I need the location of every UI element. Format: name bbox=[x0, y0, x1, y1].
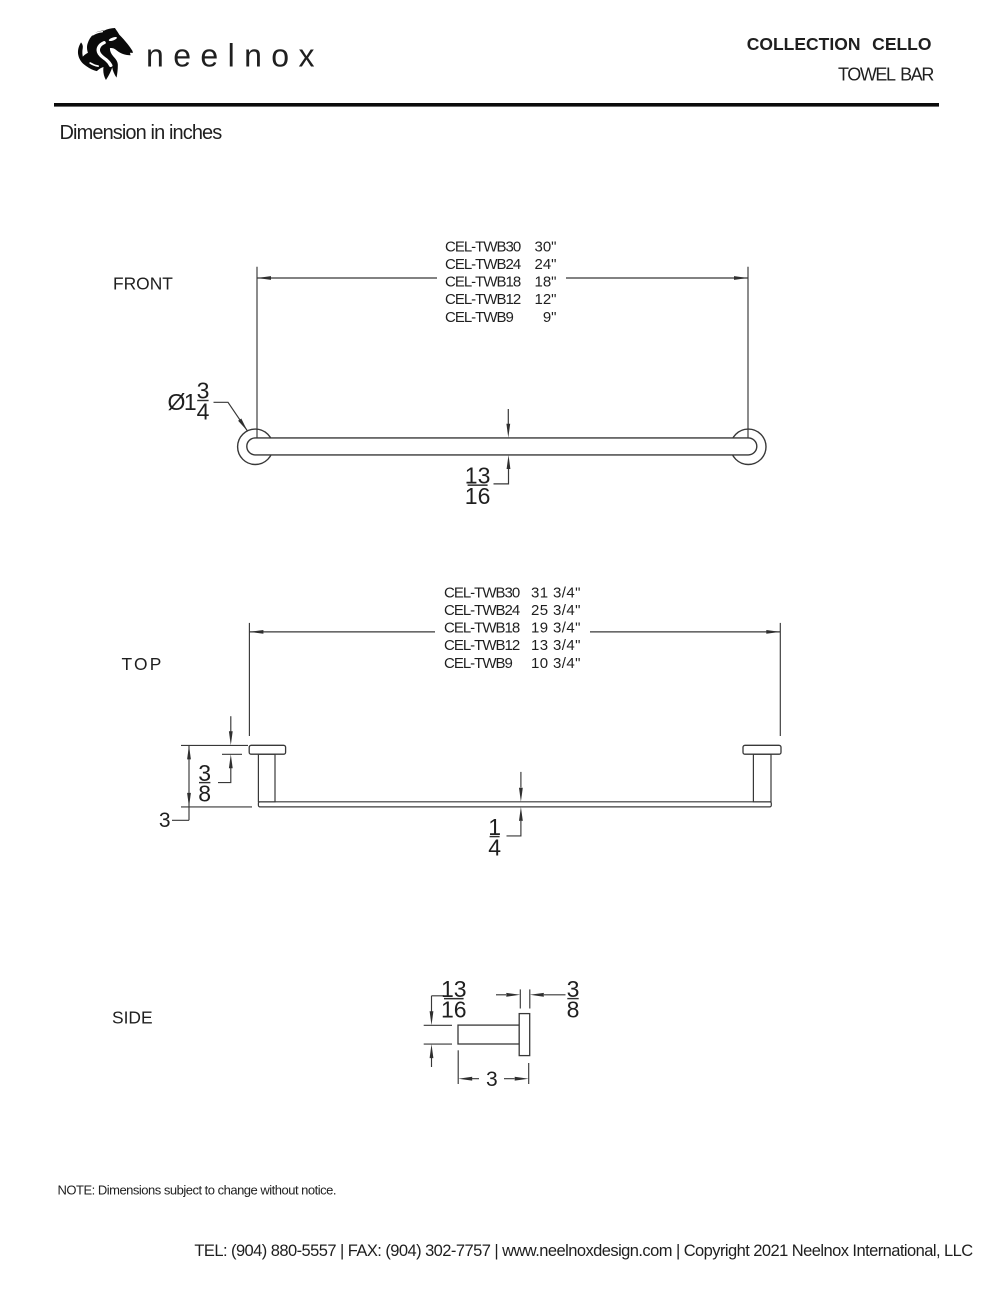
side bar lower arrow line bbox=[431, 1058, 433, 1067]
bar depth lower arrow line bbox=[507, 821, 521, 836]
svg-text:4: 4 bbox=[197, 399, 210, 425]
svg-text:CEL-TWB24: CEL-TWB24 bbox=[444, 602, 520, 619]
top left wall cap bbox=[249, 745, 285, 754]
side plate left arrow line bbox=[496, 994, 506, 996]
depth dim vertical bbox=[172, 745, 189, 820]
side length ext right bbox=[528, 1063, 530, 1084]
depth arrow down bbox=[187, 793, 191, 807]
bar depth fraction 1/4 bbox=[488, 814, 501, 861]
diameter label leader bbox=[214, 402, 248, 431]
svg-text:3: 3 bbox=[486, 1068, 498, 1091]
svg-text:FRONT: FRONT bbox=[113, 273, 173, 293]
diameter fraction 3/4 bbox=[197, 378, 210, 425]
side bar arrow up bbox=[430, 1044, 434, 1058]
side plate arrow right bbox=[506, 993, 520, 997]
side bar fraction 13/16 bbox=[441, 976, 467, 1023]
top right wall cap bbox=[743, 745, 781, 754]
cap thickness lower arrow line bbox=[218, 768, 231, 783]
svg-text:SIDE: SIDE bbox=[112, 1008, 153, 1028]
cap thickness arrow up bbox=[229, 754, 233, 768]
front left post circle bbox=[238, 429, 273, 464]
side bar upper arrow line bbox=[432, 996, 445, 1012]
side plate arrow left bbox=[530, 993, 544, 997]
svg-text:COLLECTION CELLO: COLLECTION CELLO bbox=[747, 34, 932, 54]
svg-text:CEL-TWB30: CEL-TWB30 bbox=[445, 238, 521, 255]
svg-text:10 3/4": 10 3/4" bbox=[531, 655, 581, 672]
side wall plate bbox=[519, 1014, 530, 1056]
front left extension line bbox=[256, 267, 258, 438]
bar thickness upper arrow bbox=[507, 409, 509, 425]
svg-text:CEL-TWB9: CEL-TWB9 bbox=[444, 655, 513, 672]
side bar ext top bbox=[424, 1024, 452, 1026]
bar thickness fraction 13/16 bbox=[465, 462, 491, 509]
top left extension line bbox=[248, 623, 250, 736]
side length ext left bbox=[457, 1050, 459, 1084]
front part table bbox=[445, 238, 521, 325]
svg-text:16: 16 bbox=[441, 996, 467, 1022]
svg-text:Dimension in inches: Dimension in inches bbox=[60, 122, 223, 144]
depth arrow up bbox=[187, 745, 191, 759]
front dim arrow left bbox=[257, 276, 271, 280]
depth ext top bbox=[181, 744, 248, 746]
svg-text:CEL-TWB24: CEL-TWB24 bbox=[445, 256, 521, 273]
svg-text:CEL-TWB18: CEL-TWB18 bbox=[445, 274, 521, 291]
depth ext bottom bbox=[181, 806, 252, 808]
svg-text:TOWEL BAR: TOWEL BAR bbox=[838, 65, 934, 85]
svg-text:25 3/4": 25 3/4" bbox=[531, 602, 581, 619]
logo horse head bbox=[78, 28, 133, 80]
cap bottom extension bbox=[222, 753, 242, 755]
svg-text:8: 8 bbox=[567, 996, 580, 1022]
top right post bbox=[753, 754, 771, 802]
side plate right arrow line bbox=[544, 994, 566, 996]
side bar body bbox=[458, 1025, 519, 1044]
svg-text:neelnox: neelnox bbox=[146, 38, 324, 74]
header rule bbox=[54, 103, 939, 107]
svg-text:CEL-TWB18: CEL-TWB18 bbox=[444, 620, 520, 637]
front right post circle bbox=[731, 429, 766, 464]
top dim arrow right bbox=[766, 630, 780, 634]
svg-text:4: 4 bbox=[488, 834, 501, 860]
svg-text:TOP: TOP bbox=[122, 654, 164, 674]
svg-text:30": 30" bbox=[534, 238, 556, 255]
svg-text:Ø1: Ø1 bbox=[168, 389, 196, 415]
side plate ext left bbox=[519, 989, 521, 1008]
top right extension line bbox=[779, 623, 781, 736]
svg-text:19 3/4": 19 3/4" bbox=[531, 620, 581, 637]
diameter leader arrowhead bbox=[238, 419, 248, 432]
svg-text:24": 24" bbox=[534, 256, 556, 273]
svg-text:16: 16 bbox=[465, 483, 491, 509]
svg-text:CEL-TWB12: CEL-TWB12 bbox=[444, 637, 520, 654]
cap thickness arrow down bbox=[229, 731, 233, 745]
bar thickness lower arrow bbox=[494, 468, 509, 484]
svg-text:13 3/4": 13 3/4" bbox=[531, 637, 581, 654]
top width dimension line bbox=[249, 631, 780, 633]
side bar ext bottom bbox=[424, 1043, 452, 1045]
svg-text:3: 3 bbox=[159, 809, 171, 832]
front bar body bbox=[247, 438, 757, 455]
top dim arrow left bbox=[249, 630, 263, 634]
front right extension line bbox=[747, 267, 749, 438]
front width dimension line bbox=[257, 277, 748, 279]
side length dim line bbox=[472, 1078, 515, 1080]
top bar body bbox=[258, 802, 771, 807]
top left post bbox=[258, 754, 275, 802]
side plate ext right bbox=[529, 989, 531, 1008]
side length arrow right bbox=[515, 1077, 529, 1081]
side plate fraction 3/8 bbox=[567, 976, 580, 1023]
svg-text:31 3/4": 31 3/4" bbox=[531, 584, 581, 601]
svg-text:TEL: (904) 880-5557 | FAX: (90: TEL: (904) 880-5557 | FAX: (904) 302-775… bbox=[194, 1242, 973, 1260]
svg-text:9": 9" bbox=[543, 309, 557, 326]
front dim arrow right bbox=[734, 276, 748, 280]
bar depth upper arrow line bbox=[520, 772, 522, 788]
bar depth arrow up bbox=[519, 807, 523, 821]
cap thickness fraction 3/8 bbox=[198, 760, 211, 807]
svg-text:CEL-TWB12: CEL-TWB12 bbox=[445, 291, 521, 308]
svg-text:8: 8 bbox=[198, 780, 211, 806]
bar depth arrow down bbox=[519, 788, 523, 802]
svg-text:CEL-TWB9: CEL-TWB9 bbox=[445, 309, 514, 326]
svg-text:12": 12" bbox=[534, 291, 556, 308]
svg-text:NOTE: Dimensions subject to ch: NOTE: Dimensions subject to change witho… bbox=[58, 1183, 336, 1198]
side bar arrow down bbox=[430, 1011, 434, 1025]
cap thickness upper arrow line bbox=[230, 716, 232, 731]
top part table bbox=[444, 584, 520, 672]
svg-text:18": 18" bbox=[534, 274, 556, 291]
side length arrow left bbox=[458, 1077, 472, 1081]
svg-text:CEL-TWB30: CEL-TWB30 bbox=[444, 584, 520, 601]
